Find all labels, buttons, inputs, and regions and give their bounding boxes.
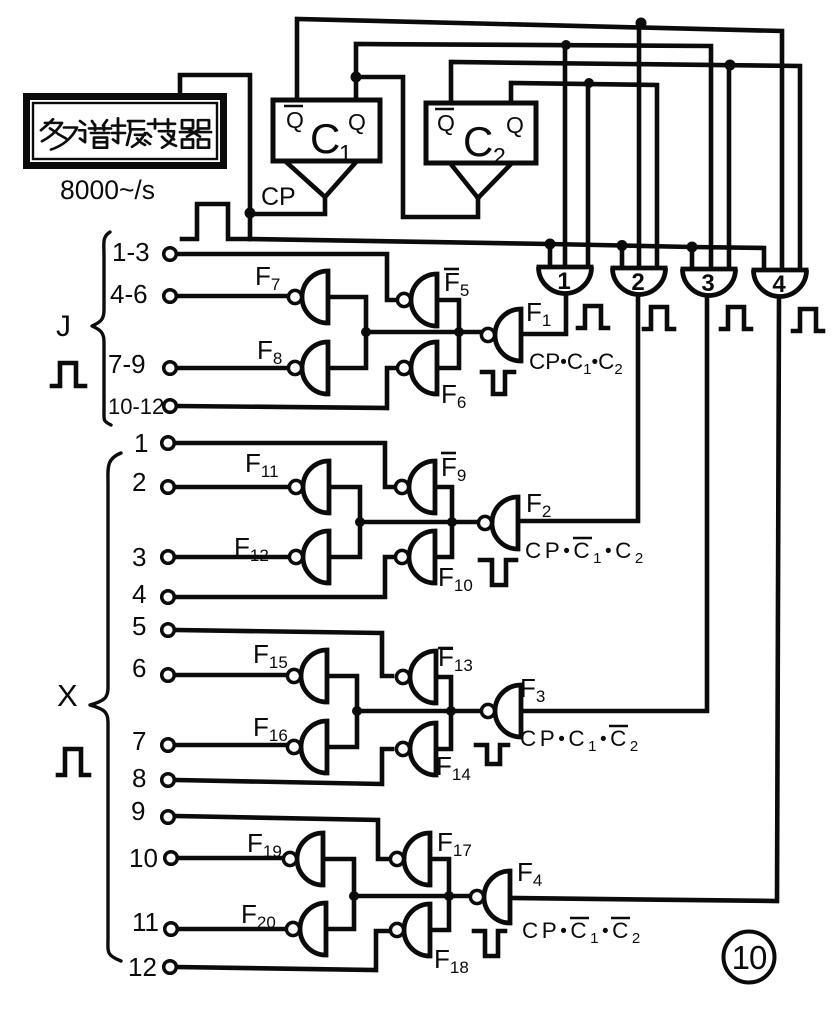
svg-text:Q: Q [437,110,455,136]
svg-text:Q: Q [348,109,366,135]
svg-text:F1: F1 [526,297,551,330]
svg-text:F17: F17 [437,827,472,860]
svg-text:F4: F4 [517,857,542,890]
svg-text:Q: Q [506,112,524,138]
svg-text:10: 10 [129,843,158,873]
svg-text:2: 2 [631,269,644,296]
svg-text:7: 7 [132,726,146,756]
svg-text:5: 5 [132,611,146,641]
svg-text:1: 1 [134,428,148,458]
svg-text:F11: F11 [245,448,279,481]
svg-text:6: 6 [132,653,146,683]
svg-text:F3: F3 [520,673,545,706]
svg-text:F10: F10 [438,562,473,595]
svg-text:F16: F16 [253,712,288,745]
svg-text:1: 1 [339,140,352,166]
svg-text:X: X [57,678,78,713]
svg-text:9: 9 [131,796,145,826]
svg-text:2: 2 [132,467,146,497]
svg-text:F9: F9 [441,452,466,485]
svg-text:2: 2 [493,143,506,169]
svg-text:C: C [310,115,340,162]
svg-text:F20: F20 [241,899,276,932]
svg-text:F8: F8 [257,335,282,368]
svg-text:J: J [56,310,71,343]
svg-text:F19: F19 [247,828,282,861]
svg-text:F18: F18 [434,944,469,977]
svg-text:CP•C1•C2: CP•C1•C2 [529,349,623,378]
svg-text:1-3: 1-3 [112,237,150,267]
svg-text:F14: F14 [436,751,471,784]
svg-text:10: 10 [732,939,767,976]
svg-text:CP•C1•C2: CP•C1•C2 [525,538,647,567]
svg-text:11: 11 [132,907,159,937]
svg-text:1: 1 [557,268,570,295]
svg-text:7-9: 7-9 [108,349,146,379]
svg-text:C: C [463,118,493,165]
svg-text:Q: Q [286,107,304,133]
svg-text:F15: F15 [253,639,288,672]
svg-text:12: 12 [128,952,157,982]
svg-text:F12: F12 [234,532,269,565]
svg-text:3: 3 [132,542,146,572]
svg-text:8: 8 [132,763,146,793]
svg-text:4: 4 [132,579,146,609]
svg-text:4: 4 [772,271,786,298]
svg-text:F6: F6 [441,379,466,412]
svg-text:10-12: 10-12 [108,394,164,419]
svg-text:8000~/s: 8000~/s [60,175,155,205]
svg-text:CP: CP [261,183,296,211]
svg-text:F2: F2 [526,488,551,521]
svg-text:3: 3 [701,270,714,297]
svg-text:F5: F5 [444,267,469,300]
svg-text:F7: F7 [255,261,280,294]
svg-text:4-6: 4-6 [110,279,148,309]
svg-text:CP•C1•C2: CP•C1•C2 [522,918,644,947]
svg-text:CP•C1•C2: CP•C1•C2 [520,726,642,755]
